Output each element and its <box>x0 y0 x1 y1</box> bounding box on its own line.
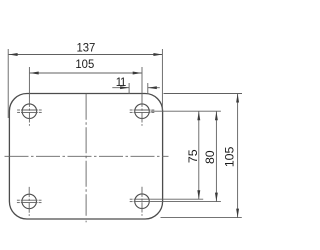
svg-text:75: 75 <box>186 149 200 163</box>
svg-text:137: 137 <box>76 40 95 55</box>
svg-text:105: 105 <box>223 146 237 167</box>
svg-text:11: 11 <box>116 75 126 90</box>
svg-text:80: 80 <box>203 150 217 164</box>
svg-text:105: 105 <box>75 57 94 72</box>
